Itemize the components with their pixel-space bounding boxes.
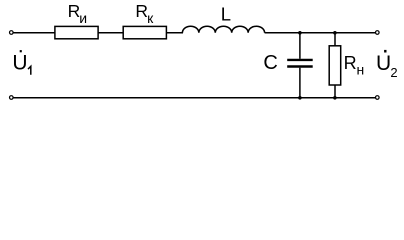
wire: Rн bottom lead (334, 85, 336, 98)
label U2 (phasor dot, U, subscript 2) (376, 50, 398, 80)
node: top junction at C (298, 31, 302, 35)
svg-text:R: R (344, 53, 357, 73)
label U1 (phasor dot, U, subscript 1) (12, 50, 30, 75)
resistor Rн (vertical) (329, 46, 341, 85)
svg-text:U: U (12, 51, 27, 74)
wire: L to output terminal (265, 32, 376, 34)
output terminal top-right (U2 +) (376, 31, 380, 35)
bottom rail wire (13, 97, 375, 99)
input terminal bottom-left (U1 -) (10, 96, 14, 100)
svg-text:C: C (263, 52, 277, 74)
wire: R_и to R_к (98, 32, 123, 34)
input terminal top-left (U1 +) (10, 31, 14, 35)
node: bottom junction at C (298, 96, 302, 100)
svg-text:и: и (79, 10, 87, 26)
capacitor C plates (287, 60, 313, 67)
wire: Rн top lead (334, 33, 336, 46)
svg-text:2: 2 (390, 65, 397, 80)
wire: capacitor bottom lead (299, 68, 301, 98)
inductor L (5 half-loops) (182, 26, 264, 33)
resistor Rк (123, 26, 166, 38)
label Rи (68, 1, 88, 26)
wire: terminal to R_и (13, 32, 55, 34)
wire: capacitor top lead (299, 33, 301, 59)
wire: R_к to L (166, 32, 183, 34)
svg-text:н: н (357, 62, 365, 78)
resistor Rи (55, 26, 98, 38)
svg-text:U: U (376, 52, 391, 75)
label Rк (135, 1, 154, 26)
label Rн (344, 53, 365, 77)
output terminal bottom-right (U2 -) (376, 96, 380, 100)
node: top junction at Rн (333, 31, 337, 35)
svg-text:L: L (221, 3, 231, 24)
node: bottom junction at Rн (333, 96, 337, 100)
svg-text:к: к (147, 10, 154, 26)
